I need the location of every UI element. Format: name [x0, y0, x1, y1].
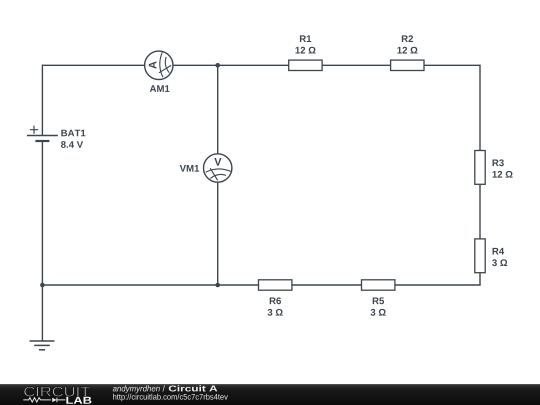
label R3 [493, 159, 504, 166]
wire left rail: battery positive to top rail [41, 65, 43, 136]
label BAT1 [61, 130, 85, 137]
footer attribution separator [163, 385, 165, 391]
wire ground stub [41, 285, 43, 341]
label R1 [300, 35, 311, 42]
node junction top of voltmeter branch [215, 63, 220, 68]
battery BAT1 negative plate [35, 140, 49, 142]
footer attribution author name [113, 385, 160, 393]
label R2 [402, 35, 413, 42]
wire top rail: R2 to top-right corner [424, 64, 480, 66]
label R5 [373, 298, 384, 305]
resistor R3 [475, 151, 485, 185]
resistor R5 [362, 280, 395, 290]
battery BAT1 plus sign [30, 126, 38, 134]
label R5 value 3 Ω [371, 309, 386, 316]
wire bottom rail: corner to R5 [395, 284, 481, 286]
CircuitLab logo diode symbol [52, 398, 65, 403]
label BAT1 value 8.4 V [61, 141, 83, 148]
CircuitLab logo LAB wordmark [66, 397, 91, 404]
wire bottom rail: R5 to R6 [292, 284, 362, 286]
ammeter AM1 [145, 51, 173, 79]
label R4 [493, 248, 505, 255]
resistor R4 [475, 239, 485, 273]
ground [30, 341, 55, 350]
battery BAT1 positive plate [27, 135, 58, 137]
wire right rail: corner to R3 [479, 65, 481, 151]
wire top rail: battery to ammeter [42, 64, 144, 66]
node junction ground [40, 283, 45, 288]
wire top rail: R1 to R2 [322, 64, 391, 66]
label R4 value 3 Ω [492, 259, 507, 266]
resistor R2 [391, 60, 424, 70]
wire top rail: ammeter to R1 [173, 64, 289, 66]
label AM1 [150, 85, 170, 92]
wire right rail: R4 to bottom-right corner [479, 273, 481, 285]
CircuitLab logo CIRCUIT wordmark [24, 387, 90, 397]
label VM1 [180, 165, 199, 172]
wire right rail: R3 to R4 [479, 184, 481, 239]
label R6 [270, 297, 281, 304]
wire bottom rail: R6 to ground node [42, 284, 258, 286]
voltmeter VM1 [204, 154, 232, 182]
wire voltmeter branch: VM1 to bottom rail [217, 182, 219, 285]
wire left rail: ground node to battery negative [41, 141, 43, 285]
footer attribution circuit name [169, 385, 218, 391]
footer url line [113, 394, 228, 402]
label R6 value 3 Ω [268, 309, 283, 316]
node junction bottom of voltmeter branch [215, 283, 220, 288]
label R3 value 12 Ω [493, 171, 513, 178]
label R2 value 12 Ω [397, 47, 417, 54]
label R1 value 12 Ω [295, 47, 315, 54]
footer bar [0, 384, 540, 405]
resistor R6 [259, 280, 292, 290]
wire voltmeter branch: top node to VM1 [217, 65, 219, 154]
CircuitLab logo resistor zigzag [23, 398, 51, 402]
resistor R1 [289, 60, 322, 70]
